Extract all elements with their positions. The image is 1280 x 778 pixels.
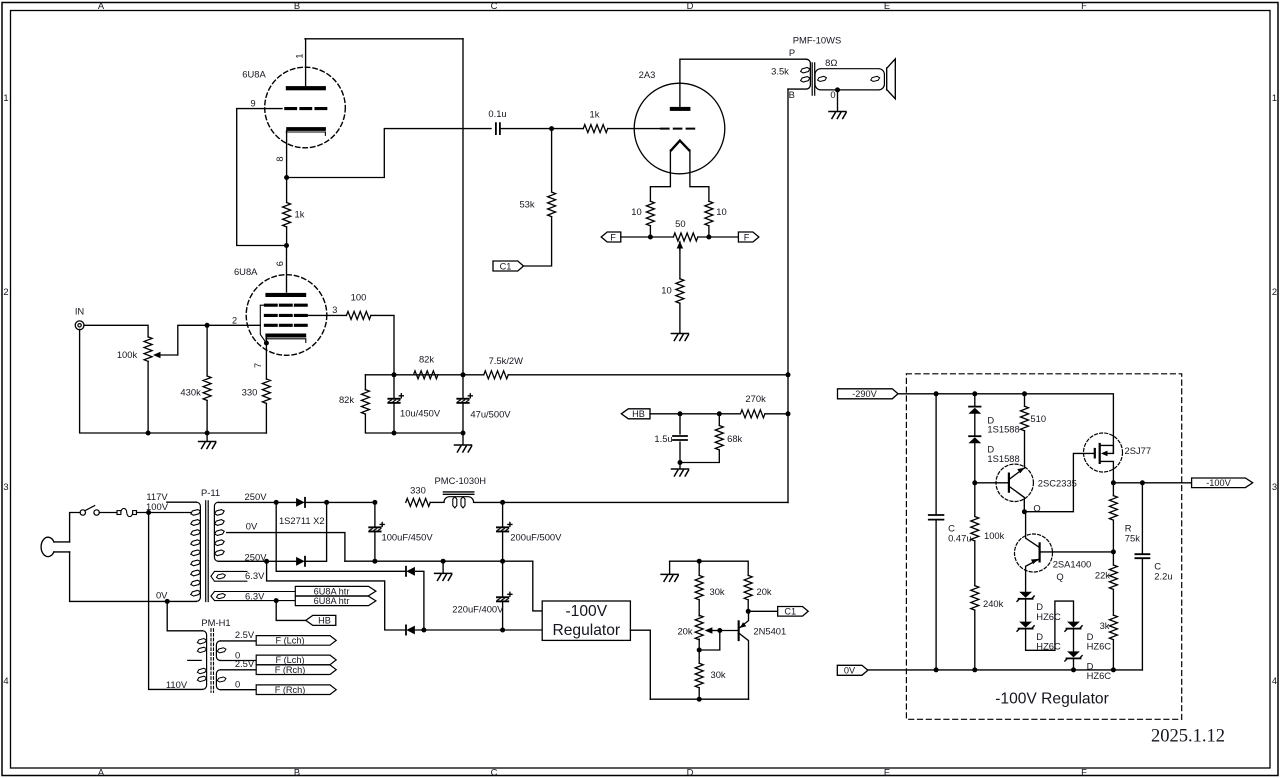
node HB ground xyxy=(678,460,683,465)
wire 30k to pot xyxy=(698,600,700,616)
diode bias rectifier upper xyxy=(406,567,415,576)
wire filament left leg xyxy=(650,150,670,201)
wire right 10 to node xyxy=(708,226,710,237)
svg-text:2.2u: 2.2u xyxy=(1154,570,1172,581)
svg-text:7.5k/2W: 7.5k/2W xyxy=(489,355,524,366)
2N5401 collector xyxy=(740,634,749,699)
wire 2A3 plate up to OPT xyxy=(680,59,806,107)
svg-text:2: 2 xyxy=(232,315,237,325)
svg-text:P-11: P-11 xyxy=(201,487,220,498)
speaker xyxy=(887,59,896,99)
svg-text:1S2711 X2: 1S2711 X2 xyxy=(279,515,325,526)
wire -290V rail xyxy=(898,394,1113,453)
resistor 240k xyxy=(971,586,979,610)
svg-text:3.5k: 3.5k xyxy=(771,66,789,77)
wire 330 bottom to ground rail xyxy=(265,404,267,434)
capacitor 47u/500V electrolytic xyxy=(462,375,464,433)
node base 2SC2335 xyxy=(972,480,977,485)
svg-text:F: F xyxy=(744,232,750,242)
node neutral junction xyxy=(165,599,170,604)
capacitor 220uF/400V xyxy=(502,561,504,630)
svg-text:-100V: -100V xyxy=(565,603,607,620)
svg-text:2A3: 2A3 xyxy=(639,69,656,80)
svg-text:F: F xyxy=(1081,0,1087,11)
node B+ / driver feed xyxy=(786,372,791,377)
node rectifier output join xyxy=(324,500,329,505)
wire cathode down xyxy=(286,131,288,203)
wire 240k to 0V xyxy=(974,610,976,670)
svg-text:10u/450V: 10u/450V xyxy=(400,407,441,418)
node 0V zener xyxy=(1071,667,1076,672)
svg-text:100k: 100k xyxy=(984,530,1005,541)
node 0V C047 xyxy=(934,667,939,672)
node 0V 3k xyxy=(1111,667,1116,672)
svg-text:430k: 430k xyxy=(180,387,201,398)
node HB 68k xyxy=(717,411,722,416)
tag F (Rch) lower xyxy=(256,685,336,695)
wire F left tag to node xyxy=(621,236,651,238)
svg-text:B: B xyxy=(789,89,795,100)
wire plate pin up xyxy=(305,39,307,86)
svg-text:F: F xyxy=(610,232,616,242)
svg-text:PMC-1030H: PMC-1030H xyxy=(435,475,487,486)
wire sec Rch bottom xyxy=(220,689,256,691)
svg-text:F (Lch): F (Lch) xyxy=(275,655,304,665)
wire 20k to C1 node xyxy=(747,600,749,611)
svg-text:A: A xyxy=(98,0,105,11)
ground PS xyxy=(442,561,444,573)
wire bias line B xyxy=(267,561,405,630)
wire 250V top to rectifier xyxy=(218,501,296,503)
svg-text:30k: 30k xyxy=(711,669,726,680)
winding 6.3V heater xyxy=(211,592,295,601)
transformer PM-H1 core dotted xyxy=(211,629,214,693)
wire pin3 to 100 resistor xyxy=(306,314,346,316)
wire plug neutral down xyxy=(70,552,197,602)
svg-text:IN: IN xyxy=(75,306,84,317)
svg-text:0V: 0V xyxy=(156,589,168,600)
wire 7.5k to B+ vertical xyxy=(508,374,788,376)
triode U1a grid dashed line pin 9 xyxy=(286,107,326,110)
zener D HZ6C 2 xyxy=(1017,622,1034,632)
svg-text:HZ6C: HZ6C xyxy=(1087,641,1112,652)
svg-text:6U8A: 6U8A xyxy=(234,266,258,277)
svg-text:0: 0 xyxy=(235,679,240,690)
resistor 68k xyxy=(718,414,720,426)
svg-text:B: B xyxy=(294,766,300,777)
wire 0V HV tap xyxy=(227,533,345,562)
tag 0V xyxy=(837,665,868,675)
svg-text:10: 10 xyxy=(631,206,641,217)
svg-text:C: C xyxy=(491,766,498,777)
resistor 10 filament right xyxy=(705,201,713,225)
svg-text:3: 3 xyxy=(332,305,337,315)
svg-text:9: 9 xyxy=(250,98,255,108)
wire 0.1u to 1k xyxy=(500,128,583,130)
wire 117V tap stub xyxy=(167,501,197,503)
wire wiper strap xyxy=(699,631,720,651)
wire cathode to coupling cap riser xyxy=(287,129,491,178)
resistor 3k xyxy=(1109,615,1117,639)
svg-text:68k: 68k xyxy=(727,433,742,444)
wire 53k bottom to C1 tag xyxy=(524,217,552,266)
svg-text:D: D xyxy=(687,0,694,11)
tag 6U8A htr upper xyxy=(295,586,376,595)
svg-text:8: 8 xyxy=(275,156,285,161)
svg-text:110V: 110V xyxy=(166,679,188,690)
svg-text:0V: 0V xyxy=(844,666,856,676)
winding 6.3V unused xyxy=(211,571,247,581)
wire bias B join xyxy=(416,629,543,631)
svg-text:100V: 100V xyxy=(146,501,169,512)
svg-text:6: 6 xyxy=(275,261,285,266)
wire grid pin 9 left and down xyxy=(237,109,287,246)
diode bias rectifier lower xyxy=(406,625,415,634)
svg-text:2: 2 xyxy=(3,286,8,297)
svg-text:4: 4 xyxy=(1272,675,1277,686)
tube 2A3 envelope xyxy=(634,83,725,174)
svg-text:22k: 22k xyxy=(1095,570,1110,581)
svg-text:30k: 30k xyxy=(710,586,725,597)
wire 100 to screen node xyxy=(371,315,394,374)
svg-text:250V: 250V xyxy=(245,491,268,502)
svg-text:2025.1.12: 2025.1.12 xyxy=(1151,727,1225,747)
wire 75k to base node xyxy=(1112,520,1114,565)
wire neutral down to PM-H1 xyxy=(167,601,202,630)
svg-text:50: 50 xyxy=(675,218,685,229)
zener D HZ6C 1 xyxy=(1017,592,1034,602)
svg-text:200uF/500V: 200uF/500V xyxy=(510,532,562,543)
wire left 10 to node xyxy=(649,226,651,237)
capacitor 1.5u xyxy=(679,414,681,463)
node B+ rail filter input xyxy=(372,500,377,505)
resistor 100k xyxy=(971,516,979,540)
node hum pot right xyxy=(706,235,711,240)
svg-text:F (Rch): F (Rch) xyxy=(275,685,306,695)
wire 430k bottom xyxy=(206,401,208,434)
wire bias top rail xyxy=(670,561,749,575)
node -290 C047 xyxy=(934,391,939,396)
svg-text:D: D xyxy=(687,766,694,777)
transformer T1 core xyxy=(812,63,815,95)
svg-text:2.5V: 2.5V xyxy=(235,658,255,669)
node C1 emitter xyxy=(746,609,751,614)
wire sec Rch top xyxy=(220,669,256,671)
resistor 30k upper xyxy=(698,561,700,575)
svg-text:2.5V: 2.5V xyxy=(235,629,255,640)
switch SW xyxy=(80,510,85,515)
wire HB node xyxy=(650,413,788,415)
pentode U1b grid g3 dashes xyxy=(265,304,306,307)
svg-text:3k: 3k xyxy=(1100,620,1110,631)
resistor 20k right xyxy=(744,575,752,599)
zener D HZ6C 4 xyxy=(1065,651,1082,661)
svg-text:2: 2 xyxy=(1272,286,1277,297)
capacitor 0.1u coupling xyxy=(496,123,500,134)
wire B+ vertical drop to driver rail xyxy=(462,39,464,375)
resistor 30k lower xyxy=(695,663,703,687)
transformer P-11 primary winding xyxy=(196,502,200,601)
wire bias A to -290 node xyxy=(416,571,424,630)
2A3 filament tent xyxy=(670,141,690,152)
node 100uF bottom xyxy=(372,559,377,564)
transformer PM-H1 primary xyxy=(203,631,207,690)
wire cathode down pin 7 xyxy=(265,338,267,380)
wire bias line A xyxy=(276,502,405,571)
svg-text:1S1588: 1S1588 xyxy=(987,453,1019,464)
svg-text:3: 3 xyxy=(1272,481,1277,492)
resistor 1k cathode xyxy=(283,202,291,226)
triode U1a 6U8A envelope xyxy=(265,67,346,148)
svg-text:E: E xyxy=(884,0,890,11)
node 220uF bottom xyxy=(500,628,505,633)
wire heater tap to HB tag xyxy=(276,601,306,621)
wire diodes to base node xyxy=(974,443,976,516)
svg-text:1k: 1k xyxy=(590,109,600,120)
wire zener1 to zener2 xyxy=(1025,600,1027,622)
svg-text:8Ω: 8Ω xyxy=(825,57,837,68)
diode 1S2711 top xyxy=(296,498,305,507)
wire sec Lch bottom xyxy=(220,660,256,662)
wire B+ top horizontal xyxy=(305,38,463,40)
wire 10 to ground xyxy=(679,303,681,333)
svg-text:E: E xyxy=(884,766,890,777)
dashed regulator detail box xyxy=(906,374,1181,720)
svg-text:1: 1 xyxy=(3,92,8,103)
svg-text:P: P xyxy=(789,47,795,58)
diode D 1S1588 lower xyxy=(974,414,976,436)
resistor 7.5k/2W xyxy=(484,371,508,379)
wire mains hot down to PM-H1 xyxy=(149,513,203,690)
svg-text:-290V: -290V xyxy=(852,389,877,399)
node g3 cathode tie xyxy=(264,341,269,346)
2A3 grid dashes xyxy=(661,128,695,130)
svg-text:75k: 75k xyxy=(1125,532,1140,543)
svg-text:270k: 270k xyxy=(745,393,766,404)
node O xyxy=(1022,509,1027,514)
wire 68k bottom to cap bottom xyxy=(680,450,719,463)
wire fuse to transformer xyxy=(137,512,192,514)
pentode U1b 6U8A envelope xyxy=(246,275,327,356)
wire pentode plate pin 6 xyxy=(286,246,288,293)
wire regulator output xyxy=(630,630,650,699)
svg-text:6.3V: 6.3V xyxy=(245,590,265,601)
node mains junction xyxy=(146,510,151,515)
svg-text:C1: C1 xyxy=(500,261,512,271)
node base 2SA1400 xyxy=(1111,549,1116,554)
svg-text:6U8A: 6U8A xyxy=(242,69,266,80)
wire 1k to 2A3 grid xyxy=(608,128,661,130)
transformer P-11 core xyxy=(206,501,209,602)
svg-text:2N5401: 2N5401 xyxy=(753,626,786,637)
wire plug hot up to switch xyxy=(70,513,81,542)
tag 6U8A htr lower xyxy=(295,596,376,605)
frame column labels bottom xyxy=(98,766,1087,777)
svg-text:HZ6C: HZ6C xyxy=(1036,611,1061,622)
node PS ground tap xyxy=(441,559,446,564)
wire PS 0V rail xyxy=(345,561,542,611)
potentiometer 20k bias xyxy=(695,615,703,639)
tag F (Lch) upper xyxy=(256,636,336,646)
wire O to gate xyxy=(1024,453,1093,511)
svg-text:B: B xyxy=(294,0,300,11)
node cap rail left xyxy=(392,431,397,436)
node screen rail left xyxy=(392,372,397,377)
svg-text:HB: HB xyxy=(318,616,331,626)
node choke output xyxy=(500,500,505,505)
mosfet 2SJ77 xyxy=(1084,433,1123,472)
svg-text:F: F xyxy=(1081,766,1087,777)
node -290 diode chain xyxy=(972,391,977,396)
wire 330 to choke xyxy=(430,501,444,503)
wire IN jack down to ground rail xyxy=(80,329,267,433)
2N5401 emitter with arrow xyxy=(740,611,749,627)
wire 53k top xyxy=(551,129,553,192)
triode U1a cathode bar xyxy=(286,127,326,131)
resistor 330 cathode xyxy=(262,379,270,403)
node grid / 430k junction xyxy=(205,323,210,328)
potentiometer 100k xyxy=(144,337,152,361)
pentode U1b plate bar xyxy=(265,293,306,297)
svg-text:82k: 82k xyxy=(419,353,434,364)
wire choke to B+ xyxy=(474,501,788,503)
tag -100V xyxy=(1192,478,1253,488)
resistor 100 screen xyxy=(346,311,370,319)
node bias rail xyxy=(697,559,702,564)
wire 3k to 0V xyxy=(1112,640,1114,670)
wire IN to 100k pot top xyxy=(84,325,148,337)
resistor 1k grid stopper xyxy=(583,125,607,133)
resistor 22k xyxy=(1109,565,1117,589)
potentiometer 50 hum balance xyxy=(650,236,709,238)
svg-text:100uF/450V: 100uF/450V xyxy=(382,532,434,543)
pentode g3-cathode strap xyxy=(260,305,266,343)
wire 22k to 3k xyxy=(1112,590,1114,616)
tag HB hum bias xyxy=(621,409,650,419)
node cathode junction xyxy=(284,175,289,180)
capacitor 100uF/450V xyxy=(374,502,376,561)
resistor 10 to ground xyxy=(676,279,684,303)
ground HB xyxy=(679,463,681,469)
svg-text:510: 510 xyxy=(1030,413,1046,424)
svg-text:100: 100 xyxy=(351,292,367,303)
frame row labels xyxy=(3,92,1277,686)
node 0V 240k xyxy=(972,667,977,672)
resistor R 75k xyxy=(1112,483,1114,496)
resistor 270k xyxy=(740,410,764,418)
node -290 join xyxy=(421,628,426,633)
transistor Q 2N5401 base bar xyxy=(738,620,740,641)
node ground rail 430k xyxy=(205,431,210,436)
node pot wiper junction xyxy=(717,628,722,633)
zener D HZ6C 3 xyxy=(1065,622,1082,632)
capacitor C 0.47u xyxy=(935,394,937,670)
wire switch to fuse xyxy=(99,512,117,514)
tag C1 output xyxy=(778,607,809,617)
svg-text:F (Rch): F (Rch) xyxy=(275,665,306,675)
node plate/grid junction xyxy=(284,243,289,248)
diode 1S2711 bottom xyxy=(296,557,305,566)
ground bias network xyxy=(669,561,671,574)
svg-text:53k: 53k xyxy=(519,199,534,210)
resistor 82k decoupling horizontal xyxy=(413,371,437,379)
PM-H1 primary center stub xyxy=(188,659,202,661)
capacitor C 2.2u xyxy=(1141,483,1143,670)
svg-text:1: 1 xyxy=(1272,92,1277,103)
transformer PM-H1 secondary Rch xyxy=(216,670,220,690)
wire 0 tap to ground xyxy=(837,90,839,111)
wire 0V rail xyxy=(868,669,1142,671)
node HB cap xyxy=(678,411,683,416)
resistor 430k xyxy=(203,376,211,400)
transformer T1 primary winding xyxy=(788,59,810,89)
svg-text:Regulator: Regulator xyxy=(552,622,620,639)
wire 30k lower to rail xyxy=(698,688,700,699)
node -290 510 xyxy=(1022,391,1027,396)
svg-text:HB: HB xyxy=(632,409,645,419)
resistor 10 filament left xyxy=(646,201,654,225)
svg-text:Q: Q xyxy=(1056,571,1063,582)
tag -290V xyxy=(838,389,899,399)
node B+ / HB divider xyxy=(786,411,791,416)
wire bias bottom rail xyxy=(650,698,748,700)
node 250V top bias takeoff xyxy=(274,500,279,505)
capacitor 10u/450V electrolytic xyxy=(393,375,395,433)
svg-text:PMF-10WS: PMF-10WS xyxy=(793,35,841,46)
tag F left xyxy=(601,232,621,242)
ground decoupling xyxy=(462,433,464,445)
svg-text:20k: 20k xyxy=(677,626,692,637)
wire wiper down to 10 xyxy=(679,249,681,279)
resistor 82k screen bleeder xyxy=(361,390,369,414)
node -100V output xyxy=(1111,480,1116,485)
svg-text:2SA1400: 2SA1400 xyxy=(1053,558,1092,569)
wire pot bottom xyxy=(698,639,700,663)
tag F right xyxy=(738,232,759,242)
resistor 53k grid leak xyxy=(548,192,556,216)
wire driver B rail xyxy=(365,374,483,376)
2A3 plate bar xyxy=(670,107,691,111)
transistor 2SC2335 xyxy=(996,464,1033,501)
tag F (Lch) lower xyxy=(256,655,336,665)
svg-text:4: 4 xyxy=(3,675,8,686)
svg-text:-100V: -100V xyxy=(1206,478,1231,488)
node screen rail right xyxy=(461,372,466,377)
wire node to F right tag xyxy=(709,236,739,238)
diode D 1S1588 upper xyxy=(974,394,976,406)
2N5401 base wire xyxy=(720,630,738,632)
node bias bottom xyxy=(697,697,702,702)
wire node to C1 tag xyxy=(748,610,778,612)
svg-text:1S1588: 1S1588 xyxy=(987,424,1019,435)
transformer P-11 HV secondary xyxy=(214,502,218,561)
wire sec Lch top xyxy=(220,640,256,642)
pot 20k wiper arrow xyxy=(712,630,720,632)
svg-text:2SC2335: 2SC2335 xyxy=(1038,477,1077,488)
transformer PM-H1 secondary Lch xyxy=(216,641,220,661)
AC plug xyxy=(41,537,54,556)
svg-text:6U8A htr: 6U8A htr xyxy=(314,596,350,606)
svg-text:2SJ77: 2SJ77 xyxy=(1125,445,1152,456)
triode U1a plate bar xyxy=(286,86,326,90)
wire wiper up to grid line xyxy=(178,325,260,355)
svg-text:A: A xyxy=(98,766,105,777)
node ground rail 100k xyxy=(146,431,151,436)
node secondary 0 tap xyxy=(835,87,840,92)
node heater HB tap xyxy=(274,598,279,603)
pentode U1b cathode bar xyxy=(265,334,306,338)
node hum pot left xyxy=(648,235,653,240)
